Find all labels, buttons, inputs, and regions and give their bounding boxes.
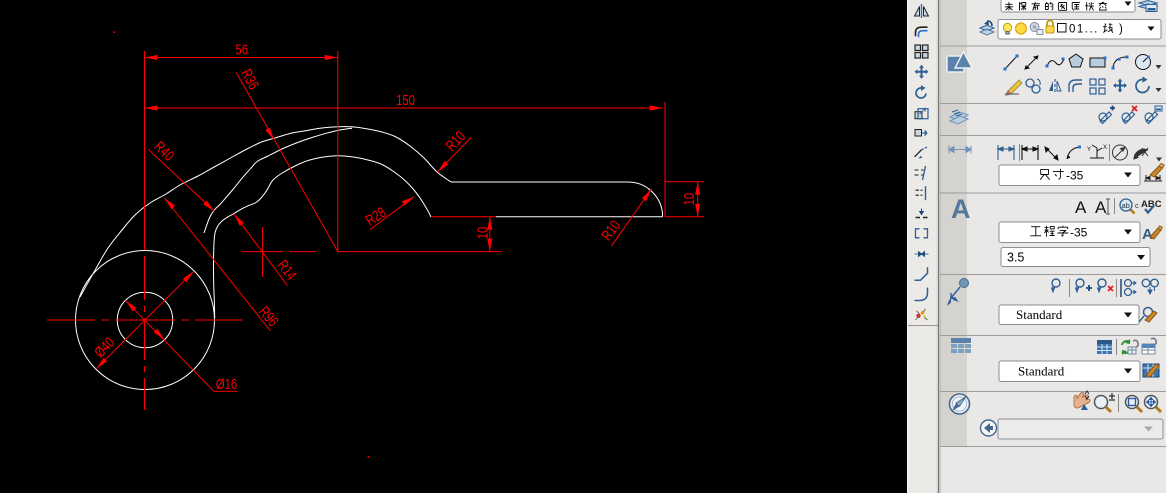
vertical centerline dashes <box>144 256 146 410</box>
svg-text:A: A <box>1095 198 1107 217</box>
svg-text:ab: ab <box>1122 201 1130 210</box>
svg-text:10: 10 <box>474 227 491 240</box>
svg-text:X: X <box>1103 145 1107 151</box>
extension line left x=144.5 <box>144 51 146 250</box>
svg-text:A: A <box>1075 198 1087 217</box>
extension line x=337.8 <box>337 51 339 252</box>
svg-text:10: 10 <box>680 193 697 206</box>
bottom 10 red overlay on arm bottom <box>431 216 496 218</box>
svg-text:01...: 01... <box>1069 24 1099 36</box>
svg-text:A: A <box>1142 226 1153 243</box>
dimension arrowheads <box>96 31 700 457</box>
outer boss circle phi40 <box>76 251 215 390</box>
dashboard panels <box>938 0 1166 493</box>
R10 bottom leader <box>611 189 651 246</box>
svg-text:A: A <box>951 194 971 224</box>
svg-text:-35: -35 <box>1066 169 1084 183</box>
svg-text:56: 56 <box>236 41 249 58</box>
arm top line <box>451 181 628 183</box>
svg-text:c: c <box>1135 201 1139 210</box>
outer profile: R96 sweep + R36 crest + R10 S-curve <box>80 127 451 297</box>
bottom 10 dim line <box>489 217 491 252</box>
extension line right x=665 <box>664 102 666 217</box>
arm bottom line <box>496 216 663 218</box>
R14 horizontal centerline + ext <box>242 251 502 253</box>
horizontal centerline y=320 <box>47 319 243 321</box>
inner chain: R28 crest + R14 notch + neck <box>214 156 432 318</box>
hole circle phi16 <box>117 292 172 347</box>
arm end R10 arc <box>628 182 663 217</box>
right 10 dim line <box>697 182 699 217</box>
svg-text:Ø16: Ø16 <box>216 375 237 392</box>
phi40 diameter line <box>96 271 194 369</box>
svg-text:Standard: Standard <box>1018 364 1065 379</box>
phi16 diameter line + leader <box>125 300 237 391</box>
R36 radius line <box>236 72 338 252</box>
svg-text:Y: Y <box>1087 147 1091 153</box>
svg-text:3.5: 3.5 <box>1007 251 1024 265</box>
CAD drawing area <box>0 0 907 493</box>
dim line 150 <box>145 107 663 109</box>
R14 radius line <box>234 214 288 286</box>
right 10 dim extensions <box>665 182 704 217</box>
dim line 56 <box>145 57 338 59</box>
svg-text:150: 150 <box>396 91 415 108</box>
R10 top leader <box>438 138 472 173</box>
R14 cross vertical <box>262 227 264 277</box>
svg-text:): ) <box>1119 24 1123 36</box>
R40 radius line <box>148 149 214 211</box>
svg-text:Standard: Standard <box>1016 307 1063 322</box>
R40 inner curve <box>204 128 352 233</box>
R28 radius line <box>370 197 414 230</box>
modify toolbar strip <box>907 0 938 493</box>
R96 radius line <box>165 198 271 331</box>
svg-text:-35: -35 <box>1070 226 1088 240</box>
